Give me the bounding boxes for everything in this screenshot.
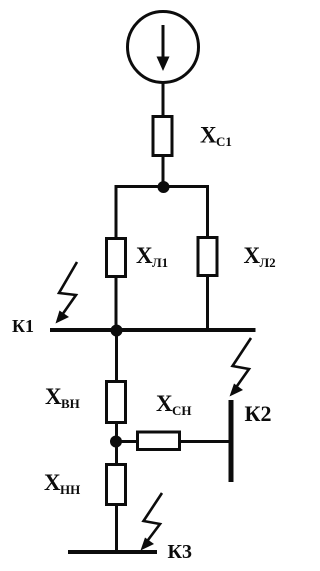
svg-text:Л1: Л1 <box>152 255 168 270</box>
svg-text:X: X <box>45 384 62 409</box>
svg-text:СН: СН <box>172 403 192 418</box>
svg-text:Л2: Л2 <box>260 255 276 270</box>
svg-text:НН: НН <box>60 482 80 497</box>
svg-text:К1: К1 <box>12 316 34 336</box>
svg-text:X: X <box>200 123 217 148</box>
svg-text:К2: К2 <box>245 401 272 426</box>
svg-text:X: X <box>156 391 173 416</box>
svg-text:X: X <box>44 470 61 495</box>
svg-text:X: X <box>244 243 261 268</box>
svg-text:К3: К3 <box>168 541 193 563</box>
svg-text:С1: С1 <box>216 134 232 149</box>
svg-text:X: X <box>136 243 153 268</box>
svg-text:ВН: ВН <box>61 396 80 411</box>
